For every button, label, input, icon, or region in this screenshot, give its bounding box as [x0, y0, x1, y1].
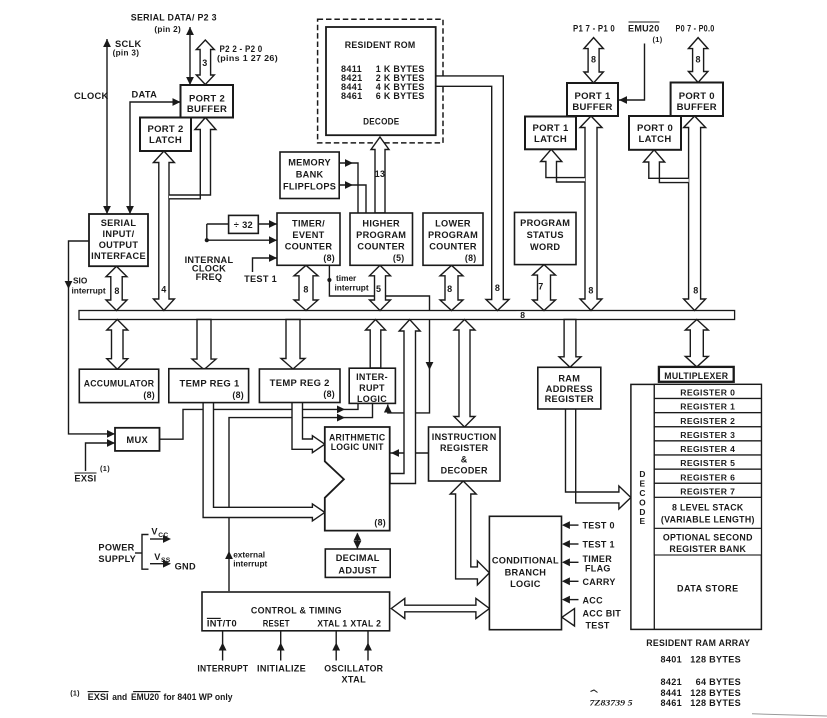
svg-text:CARRY: CARRY [583, 577, 616, 587]
svg-text:8: 8 [495, 283, 500, 293]
svg-text:RUPT: RUPT [359, 383, 385, 393]
svg-text:6 K BYTES: 6 K BYTES [376, 91, 425, 101]
svg-text:BUFFER: BUFFER [677, 102, 717, 113]
svg-text:C: C [639, 488, 645, 498]
svg-text:(8): (8) [323, 389, 335, 399]
svg-text:8461: 8461 [341, 91, 362, 101]
svg-text:PROGRAM: PROGRAM [428, 230, 478, 240]
svg-text:FLAG: FLAG [585, 563, 611, 573]
svg-text:PORT 2: PORT 2 [189, 93, 225, 104]
svg-text:(8): (8) [374, 517, 386, 527]
svg-text:TEST 1: TEST 1 [244, 274, 277, 284]
svg-text:8461: 8461 [661, 698, 682, 708]
svg-text:(8): (8) [143, 390, 155, 400]
svg-text:TIMER/: TIMER/ [292, 219, 325, 229]
svg-text:for 8401 WP only: for 8401 WP only [164, 692, 233, 702]
svg-text:INT/T0: INT/T0 [207, 619, 237, 629]
svg-text:TEMP REG 1: TEMP REG 1 [180, 379, 240, 389]
svg-text:(8): (8) [465, 253, 477, 263]
svg-text:FREQ: FREQ [196, 272, 223, 282]
svg-text:DATA STORE: DATA STORE [677, 584, 739, 594]
svg-text:TEST 0: TEST 0 [583, 521, 615, 531]
svg-text:EXSI: EXSI [88, 692, 109, 702]
svg-text:8421: 8421 [661, 677, 682, 687]
svg-text:E: E [640, 516, 646, 526]
svg-text:(pins 1 27 26): (pins 1 27 26) [217, 54, 278, 63]
svg-text:3: 3 [202, 58, 207, 68]
svg-text:(1): (1) [100, 464, 110, 473]
svg-text:INSTRUCTION: INSTRUCTION [432, 432, 497, 442]
svg-text:EVENT: EVENT [292, 230, 324, 240]
svg-text:PORT 1: PORT 1 [574, 91, 611, 102]
svg-text:8 LEVEL STACK: 8 LEVEL STACK [672, 502, 744, 512]
svg-text:&: & [461, 454, 468, 464]
svg-text:MULTIPLEXER: MULTIPLEXER [664, 371, 728, 381]
svg-text:(pin 2): (pin 2) [154, 25, 181, 34]
svg-text:STATUS: STATUS [527, 230, 564, 240]
svg-text:LOGIC: LOGIC [510, 579, 541, 589]
svg-text:ADDRESS: ADDRESS [546, 384, 593, 394]
svg-text:CONDITIONAL: CONDITIONAL [492, 556, 559, 566]
svg-text:INTERFACE: INTERFACE [91, 251, 146, 261]
svg-text:ACCUMULATOR: ACCUMULATOR [84, 379, 155, 389]
svg-text:REGISTER 7: REGISTER 7 [680, 487, 735, 497]
svg-text:8: 8 [520, 310, 525, 320]
svg-text:REGISTER 1: REGISTER 1 [680, 402, 735, 412]
svg-text:OUTPUT: OUTPUT [99, 240, 139, 250]
svg-text:ARITHMETIC: ARITHMETIC [329, 433, 386, 443]
svg-text:BUFFER: BUFFER [187, 104, 227, 115]
svg-text:8: 8 [695, 55, 700, 65]
svg-text:P0 7 - P0.0: P0 7 - P0.0 [676, 23, 715, 33]
svg-text:PORT 0: PORT 0 [679, 91, 715, 102]
svg-text:EMU20: EMU20 [131, 692, 159, 702]
svg-text:INPUT/: INPUT/ [103, 229, 135, 239]
svg-text:(1): (1) [70, 689, 80, 698]
svg-text:COUNTER: COUNTER [429, 242, 477, 252]
svg-text:TIMER: TIMER [583, 554, 613, 564]
svg-text:LATCH: LATCH [149, 135, 182, 146]
svg-text:TEST 1: TEST 1 [583, 540, 615, 550]
svg-text:RESIDENT RAM ARRAY: RESIDENT RAM ARRAY [646, 638, 750, 648]
svg-text:DECODE: DECODE [363, 116, 399, 126]
svg-text:8: 8 [447, 284, 452, 294]
svg-text:interrupt: interrupt [233, 559, 267, 569]
svg-text:RESET: RESET [263, 619, 290, 629]
svg-text:REGISTER 3: REGISTER 3 [680, 430, 735, 440]
svg-text:RESIDENT ROM: RESIDENT ROM [345, 40, 416, 50]
svg-text:8441: 8441 [661, 688, 682, 698]
svg-text:SIO: SIO [73, 276, 88, 286]
svg-text:CLOCK: CLOCK [74, 91, 109, 101]
svg-text:DATA: DATA [132, 90, 158, 100]
svg-text:FLIPFLOPS: FLIPFLOPS [283, 182, 336, 192]
svg-text:BRANCH: BRANCH [505, 567, 547, 577]
svg-text:(pin 3): (pin 3) [113, 49, 140, 58]
svg-text:REGISTER 5: REGISTER 5 [680, 458, 735, 468]
svg-text:(VARIABLE LENGTH): (VARIABLE LENGTH) [661, 514, 755, 524]
svg-text:OSCILLATOR: OSCILLATOR [324, 664, 383, 674]
svg-text:13: 13 [375, 169, 385, 179]
svg-text:REGISTER: REGISTER [545, 394, 594, 404]
svg-text:XTAL: XTAL [342, 675, 367, 685]
svg-text:8: 8 [303, 285, 308, 295]
svg-text:DECIMAL: DECIMAL [336, 553, 380, 563]
svg-text:÷ 32: ÷ 32 [234, 220, 253, 230]
svg-text:RAM: RAM [558, 374, 580, 384]
svg-text:REGISTER 2: REGISTER 2 [680, 416, 735, 426]
svg-text:PORT 2: PORT 2 [147, 124, 183, 135]
svg-text:8: 8 [588, 285, 593, 295]
svg-text:SERIAL: SERIAL [101, 218, 137, 228]
svg-text:EMU20: EMU20 [628, 23, 660, 33]
svg-text:7Z83739 5: 7Z83739 5 [590, 698, 633, 707]
svg-text:REGISTER: REGISTER [440, 443, 489, 453]
svg-text:TEMP REG 2: TEMP REG 2 [270, 378, 330, 388]
svg-text:REGISTER 0: REGISTER 0 [680, 388, 735, 398]
svg-text:timer: timer [336, 273, 357, 283]
svg-text:5: 5 [376, 284, 381, 294]
svg-text:LOWER: LOWER [435, 219, 471, 229]
svg-text:LOGIC UNIT: LOGIC UNIT [331, 442, 384, 452]
svg-text:128 BYTES: 128 BYTES [690, 698, 741, 708]
svg-text:8: 8 [591, 55, 596, 65]
svg-text:CC: CC [158, 532, 168, 539]
svg-text:P1 7 - P1 0: P1 7 - P1 0 [573, 23, 615, 33]
svg-text:SUPPLY: SUPPLY [98, 554, 136, 564]
svg-text:interrupt: interrupt [335, 283, 369, 293]
svg-text:BANK: BANK [296, 170, 324, 180]
svg-text:LATCH: LATCH [639, 134, 672, 145]
svg-text:TEST: TEST [586, 621, 610, 631]
svg-text:CONTROL & TIMING: CONTROL & TIMING [251, 606, 342, 616]
svg-text:LOGIC: LOGIC [357, 394, 387, 404]
svg-text:GND: GND [175, 561, 196, 571]
svg-text:ADJUST: ADJUST [338, 566, 377, 576]
svg-text:COUNTER: COUNTER [285, 242, 333, 252]
svg-text:128 BYTES: 128 BYTES [690, 655, 741, 665]
svg-text:P2 2 - P2 0: P2 2 - P2 0 [220, 44, 263, 54]
svg-text:XTAL 1: XTAL 1 [317, 619, 347, 629]
svg-text:SERIAL DATA/ P2 3: SERIAL DATA/ P2 3 [131, 12, 217, 22]
svg-text:4: 4 [161, 285, 166, 295]
svg-text:E: E [640, 478, 646, 488]
svg-text:OPTIONAL SECOND: OPTIONAL SECOND [663, 533, 753, 543]
svg-text:interrupt: interrupt [72, 286, 106, 296]
svg-text:INTER-: INTER- [356, 372, 388, 382]
svg-text:64 BYTES: 64 BYTES [696, 677, 741, 687]
svg-text:8: 8 [114, 286, 119, 296]
svg-text:INITIALIZE: INITIALIZE [257, 664, 306, 674]
svg-text:and: and [112, 692, 127, 702]
svg-text:BUFFER: BUFFER [572, 102, 612, 113]
svg-text:128 BYTES: 128 BYTES [690, 688, 741, 698]
svg-text:ACC BIT: ACC BIT [583, 608, 622, 618]
svg-text:ACC: ACC [583, 595, 604, 605]
svg-text:7: 7 [538, 282, 543, 292]
svg-text:8: 8 [693, 285, 698, 295]
svg-text:MUX: MUX [126, 435, 148, 445]
svg-text:PORT 1: PORT 1 [532, 123, 569, 134]
svg-text:PORT 0: PORT 0 [637, 123, 673, 134]
svg-text:MEMORY: MEMORY [288, 158, 331, 168]
svg-text:PROGRAM: PROGRAM [356, 230, 406, 240]
svg-text:SCLK: SCLK [115, 39, 142, 49]
svg-text:DECODER: DECODER [441, 466, 488, 476]
svg-text:XTAL 2: XTAL 2 [350, 619, 381, 629]
svg-text:REGISTER 4: REGISTER 4 [680, 444, 735, 454]
svg-text:POWER: POWER [98, 543, 134, 553]
svg-text:INTERRUPT: INTERRUPT [197, 664, 248, 674]
svg-text:REGISTER BANK: REGISTER BANK [669, 544, 746, 554]
svg-text:LATCH: LATCH [534, 134, 567, 145]
svg-text:WORD: WORD [530, 242, 560, 252]
svg-text:(8): (8) [323, 253, 335, 263]
svg-text:(5): (5) [393, 253, 405, 263]
svg-text:COUNTER: COUNTER [357, 242, 405, 252]
svg-text:SS: SS [161, 557, 171, 564]
svg-text:(1): (1) [653, 35, 663, 44]
svg-text:8401: 8401 [661, 655, 682, 665]
svg-text:HIGHER: HIGHER [362, 219, 400, 229]
svg-text:REGISTER 6: REGISTER 6 [680, 472, 735, 482]
svg-text:(8): (8) [232, 390, 244, 400]
svg-text:PROGRAM: PROGRAM [520, 218, 570, 228]
svg-text:EXSI: EXSI [74, 474, 96, 484]
